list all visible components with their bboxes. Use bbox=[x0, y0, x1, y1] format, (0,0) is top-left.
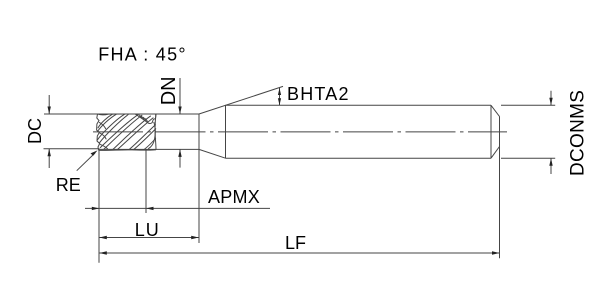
DC arrowheads bbox=[48, 107, 51, 115]
dimension LF line bbox=[99, 252, 499, 254]
node: APMX right extension line bbox=[145, 150, 147, 214]
svg-text:LU: LU bbox=[135, 220, 160, 240]
node: tip extension line (APMX/LU/LF left) bbox=[98, 150, 100, 263]
svg-text:LF: LF bbox=[285, 233, 306, 253]
centerline bbox=[93, 131, 507, 133]
wire: DC bottom extension line bbox=[44, 148, 100, 150]
lobe right stepped boundary bbox=[148, 114, 156, 123]
head left jagged edge bbox=[97, 114, 100, 150]
end teeth small curves bbox=[99, 122, 106, 129]
node: shank end vertical bbox=[490, 105, 492, 158]
node: cone base vertical + LU extension line bbox=[198, 114, 200, 243]
wire: cone top edge + BHTA2 slant extension bbox=[199, 86, 283, 114]
wire: shank end face + LF extension line bbox=[499, 117, 501, 259]
svg-text:APMX: APMX bbox=[208, 187, 260, 207]
head bottom edge bbox=[99, 149, 156, 152]
svg-text:RE: RE bbox=[56, 175, 81, 195]
svg-text:DCONMS: DCONMS bbox=[568, 90, 589, 176]
wire: cone bottom edge bbox=[199, 149, 226, 158]
top-right flute lobe: diagonal face bbox=[136, 114, 149, 123]
wire: shank bottom edge bbox=[226, 157, 492, 159]
dimension DN arrows bbox=[179, 78, 181, 114]
RE leader arrowhead bbox=[91, 150, 98, 155]
flute band 4 bbox=[113, 116, 151, 150]
dimension DCONMS extension lines bbox=[501, 104, 555, 106]
flute band 3 bbox=[100, 114, 139, 148]
dimension APMX line bbox=[85, 207, 270, 209]
wire: head/neck top edge with DC extension bbox=[44, 113, 199, 115]
LF arrowheads bbox=[99, 251, 107, 254]
right wrap curve bbox=[148, 122, 155, 149]
wire: shank end bottom chamfer bbox=[491, 147, 500, 159]
svg-text:DN: DN bbox=[158, 76, 180, 105]
wire: shank top edge bbox=[226, 104, 492, 106]
dimension DC arrows bbox=[48, 95, 50, 114]
svg-text:FHA : 45°: FHA : 45° bbox=[98, 44, 186, 64]
flute band 6 bbox=[144, 138, 156, 150]
svg-text:BHTA2: BHTA2 bbox=[287, 84, 350, 104]
head top edge bbox=[98, 113, 157, 116]
flute band 2 bbox=[97, 114, 124, 140]
svg-text:DC: DC bbox=[25, 118, 45, 144]
wire: head/neck bottom edge bbox=[99, 148, 199, 150]
dimension BHTA2 angle arrow shaft bbox=[279, 88, 281, 105]
node: cone-shank junction vertical bbox=[225, 105, 227, 158]
flute band 1 bbox=[98, 114, 113, 128]
dimension LU line bbox=[99, 237, 198, 239]
DCONMS arrowheads bbox=[549, 98, 552, 106]
BHTA2 arrowheads bbox=[278, 88, 281, 95]
LU arrowheads bbox=[99, 236, 107, 239]
dimension DCONMS arrows bbox=[550, 91, 552, 106]
wire: shank end top chamfer bbox=[491, 105, 500, 116]
APMX arrowheads bbox=[92, 207, 100, 210]
leader RE bbox=[77, 153, 95, 171]
flute band 5 bbox=[129, 125, 156, 150]
flute end boundary bbox=[154, 114, 157, 150]
lobe hatch ticks bbox=[139, 115, 142, 118]
arrowheads bbox=[48, 88, 553, 255]
DN arrowheads bbox=[178, 107, 181, 115]
tool head flutes bbox=[97, 114, 156, 150]
